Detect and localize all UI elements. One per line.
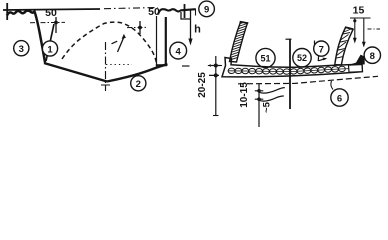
svg-text:50: 50 xyxy=(45,7,57,19)
label circle 2 xyxy=(131,76,146,91)
label circle 51 xyxy=(256,48,275,67)
left figure: corner hook below top edge xyxy=(181,12,190,19)
left figure: top edge end tick xyxy=(6,3,8,20)
dimension h: arrow line xyxy=(190,10,192,42)
left figure: top edge line xyxy=(3,9,100,10)
dimension 50 right: dash-dot line xyxy=(127,26,147,28)
label circle 52 xyxy=(293,49,311,67)
svg-text:4: 4 xyxy=(176,46,182,57)
dimension 15: dash-dot level line xyxy=(368,28,381,30)
label circle 6 leader xyxy=(331,81,333,90)
right figure: belt band hatch xyxy=(228,66,355,74)
svg-text:1: 1 xyxy=(47,44,53,55)
left figure: small hook at line end near circle 9 xyxy=(195,9,197,16)
svg-text:3: 3 xyxy=(19,44,24,55)
label circle 7 top tick xyxy=(314,41,316,46)
right figure: right skirt bar top cap xyxy=(345,27,354,29)
right figure: belt end cap box xyxy=(349,65,363,73)
svg-text:52: 52 xyxy=(297,53,307,63)
label circle 3 xyxy=(14,41,29,56)
left figure: belt left segment xyxy=(44,63,107,82)
dimension 10-15: ticks xyxy=(255,91,263,99)
rubber strip upper (curved leader) xyxy=(260,88,285,94)
right figure: belt band outline xyxy=(222,58,362,77)
dimension 15: left arrow line xyxy=(350,17,371,19)
svg-text:2: 2 xyxy=(136,79,141,90)
right figure: section line top tick xyxy=(286,38,292,40)
dimension 10-15: vertical leader line xyxy=(258,84,260,128)
label circle 4 xyxy=(170,42,187,59)
dimension 50 left: tick xyxy=(55,17,57,33)
left figure: short dash level mark right of wall xyxy=(182,65,190,67)
dimension 20-25: ticks xyxy=(209,66,221,76)
left figure: left skirt inner wall line xyxy=(46,24,54,61)
dimension 20-25: extension line with arrow xyxy=(208,65,222,67)
label circle 7 xyxy=(314,41,329,56)
label circle 7 leader xyxy=(318,56,326,61)
rubber strip lower (curved leader) xyxy=(260,96,284,101)
right figure: long vertical section line xyxy=(289,39,291,109)
left figure: material cross-section dashed arc xyxy=(62,22,157,63)
right figure: left skirt bar xyxy=(230,22,248,62)
left figure: tick on top edge right xyxy=(184,4,186,18)
dimension 15: right arrow line xyxy=(363,18,365,45)
left figure: right skirt wall outer line xyxy=(156,16,158,65)
left figure: right broken edge (freehand hump) xyxy=(158,9,196,14)
svg-text:10-15: 10-15 xyxy=(239,82,250,108)
svg-text:51: 51 xyxy=(260,54,270,64)
svg-text:~5: ~5 xyxy=(261,101,272,113)
dimension 20-25: bottom tick xyxy=(213,115,219,117)
right figure: right skirt bar rungs xyxy=(334,29,351,59)
svg-text:15: 15 xyxy=(353,5,365,17)
right figure: right skirt bar xyxy=(335,28,353,66)
dimension 20-25: vertical line xyxy=(215,56,217,116)
left figure: left skirt wall broken edge (freehand) and wall line xyxy=(7,11,45,63)
svg-text:8: 8 xyxy=(370,51,375,62)
label circle 1 xyxy=(42,41,57,56)
right figure: left skirt bar hatch xyxy=(229,21,249,61)
dimension 50 right: tick xyxy=(139,21,141,34)
left figure: vertical centerline (dash-dot) xyxy=(105,42,107,91)
left figure: dotted level line right of centerline xyxy=(106,64,132,66)
right figure: left skirt bar top cap xyxy=(240,22,249,24)
left figure: radius arrow tail tick xyxy=(112,41,118,44)
svg-text:20-25: 20-25 xyxy=(197,72,208,98)
svg-text:7: 7 xyxy=(319,44,324,55)
right figure: black wedge at right bar foot xyxy=(349,55,365,65)
svg-text:50: 50 xyxy=(148,6,160,18)
left figure: radius arrow to arc xyxy=(118,38,124,52)
svg-text:h: h xyxy=(194,24,201,36)
left figure: right skirt wall bottom xyxy=(156,64,167,66)
right figure: dashed support line below belt xyxy=(238,76,378,84)
label circle 6 xyxy=(331,89,348,106)
dimension 50 left: dash-dot line xyxy=(30,21,65,23)
left figure: top center dash-dot line xyxy=(104,8,158,9)
left figure: centerline bottom tick xyxy=(101,84,110,86)
left figure: belt right segment xyxy=(107,64,168,81)
label circle 9 xyxy=(199,1,215,17)
svg-text:6: 6 xyxy=(337,93,342,104)
left figure: right skirt wall inner thick line xyxy=(165,17,167,66)
svg-text:9: 9 xyxy=(204,5,209,16)
label circle 8 xyxy=(364,47,380,63)
